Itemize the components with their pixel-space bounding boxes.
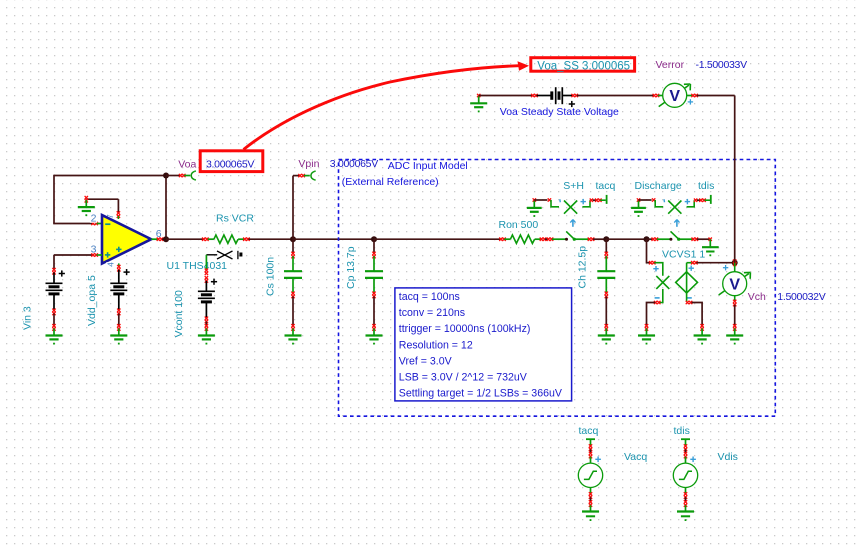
wire Ch node to VCVS node bbox=[606, 238, 646, 240]
svg-text:tconv = 210ns: tconv = 210ns bbox=[399, 307, 465, 319]
plus VCVS output bbox=[689, 266, 694, 271]
label Ch 12.5p (rotated) bbox=[577, 246, 589, 289]
label tdis (top) bbox=[698, 180, 714, 192]
ground op-amp bbox=[78, 196, 95, 216]
svg-text:Voa: Voa bbox=[178, 158, 196, 170]
svg-text:V: V bbox=[729, 277, 740, 294]
terminal Voa output clamp bbox=[191, 171, 196, 180]
svg-text:V: V bbox=[669, 88, 680, 105]
wire Vpin vertical bbox=[293, 174, 310, 239]
terminal tdis (bottom) bbox=[681, 439, 690, 451]
terminal Vpin clamp bbox=[311, 171, 316, 180]
ground Vdis bbox=[677, 505, 694, 521]
VCVS control X symbol bbox=[656, 276, 669, 289]
svg-text:tdis: tdis bbox=[698, 180, 714, 192]
wire Vch voltmeter to ground bbox=[733, 296, 736, 326]
ADC model dashed boundary box bbox=[339, 160, 776, 417]
svg-text:tacq: tacq bbox=[596, 180, 616, 192]
node Voa junction bbox=[163, 173, 169, 179]
svg-text:1.500032V: 1.500032V bbox=[777, 291, 825, 303]
voltmeter Verror bbox=[659, 83, 693, 107]
svg-text:Discharge: Discharge bbox=[635, 180, 682, 192]
svg-text:3.000065V: 3.000065V bbox=[206, 158, 254, 170]
label Cs 100n (rotated) bbox=[264, 257, 276, 296]
wire ground to battery bbox=[479, 94, 552, 97]
label U1 THS4031 bbox=[167, 260, 228, 272]
wire VCVS top to node bbox=[687, 261, 735, 272]
svg-text:Settling target = 1/2 LSBs = 3: Settling target = 1/2 LSBs = 366uV bbox=[399, 388, 563, 400]
wire Vin battery to ground bbox=[53, 314, 55, 327]
wire to pin 2 bbox=[53, 222, 102, 225]
svg-text:Vpin: Vpin bbox=[298, 158, 319, 170]
plus S+H control bbox=[581, 199, 586, 204]
svg-text:Verror: Verror bbox=[656, 59, 685, 71]
wire source Vdis to ground bbox=[684, 488, 687, 507]
svg-text:Resolution = 12: Resolution = 12 bbox=[399, 339, 473, 351]
arrow Discharge control bbox=[674, 220, 679, 227]
node Cs junction bbox=[290, 236, 296, 242]
wire Voa tap bbox=[166, 174, 190, 177]
label Cp 13.7p (rotated) bbox=[345, 246, 357, 289]
pin number 4 (rotated) bbox=[106, 262, 115, 267]
svg-text:Voa_SS 3.000065: Voa_SS 3.000065 bbox=[537, 60, 630, 72]
wire tdis terminal to source bbox=[684, 449, 687, 463]
wire Voa node vertical to op-amp output bbox=[165, 176, 167, 240]
voltmeter Vch bbox=[719, 265, 751, 296]
svg-text:Vch: Vch bbox=[748, 291, 766, 303]
ground Ch bbox=[598, 324, 615, 344]
switch S+H contact bbox=[565, 231, 594, 241]
pin marks Rs right bbox=[243, 238, 250, 241]
battery Vdd_opa bbox=[110, 269, 129, 310]
svg-text:Vcont 100: Vcont 100 bbox=[173, 290, 185, 337]
pin marks op-amp top pin bbox=[117, 211, 120, 219]
svg-text:2: 2 bbox=[91, 213, 97, 225]
svg-text:Ch 12.5p: Ch 12.5p bbox=[577, 246, 589, 289]
wire bus to VCVS control X bbox=[647, 239, 663, 276]
svg-text:LSB = 3.0V / 2^12 = 732uV: LSB = 3.0V / 2^12 = 732uV bbox=[399, 372, 528, 384]
terminal tdis (top) bbox=[710, 195, 712, 204]
plus source Vacq bbox=[595, 457, 601, 463]
switch Discharge contact bbox=[669, 231, 698, 241]
svg-text:S+H: S+H bbox=[563, 180, 584, 192]
svg-text:Rs VCR: Rs VCR bbox=[216, 213, 254, 225]
wire Vin to battery bbox=[52, 255, 55, 275]
terminal tacq (bottom) bbox=[586, 439, 595, 451]
resistor Rs VCR bbox=[208, 235, 245, 243]
label Rs VCR bbox=[216, 213, 254, 225]
minus VCVS output bbox=[687, 297, 692, 299]
wire tacq terminal to source bbox=[589, 449, 592, 463]
label tacq (bottom) bbox=[579, 425, 599, 437]
label Vdd_opa 5 (rotated) bbox=[86, 275, 98, 326]
wire output bus to Rs bbox=[166, 238, 209, 241]
node Cp junction bbox=[371, 236, 377, 242]
pin marks battery Vin bottom bbox=[52, 309, 55, 316]
label Ron 500 bbox=[499, 219, 539, 231]
wire voltmeter to corner bbox=[687, 94, 735, 263]
ground VCVS bbox=[694, 324, 711, 344]
node VCVS control junction bbox=[644, 236, 650, 242]
ground VCVS control bbox=[638, 324, 655, 344]
label ADC Input Model bbox=[388, 160, 468, 172]
pin number 2 bbox=[91, 213, 97, 225]
red annotation arrow to Voa_SS bbox=[244, 61, 530, 149]
terminal tacq (top) bbox=[606, 195, 608, 204]
plus Discharge control bbox=[685, 199, 690, 204]
wire Discharge control left bbox=[639, 198, 664, 207]
VCVS1 dependent source diamond bbox=[676, 272, 698, 293]
wire to pin 3 bbox=[54, 253, 102, 256]
label VCVS1 1 bbox=[662, 248, 705, 260]
wire Cp node to Ron bbox=[374, 238, 506, 241]
node op-amp output junction bbox=[163, 236, 169, 242]
wire Cs node to Cp node bbox=[293, 238, 374, 240]
ground Vcont bbox=[198, 324, 215, 344]
node Ch junction bbox=[603, 236, 609, 242]
svg-text:VCVS1 1: VCVS1 1 bbox=[662, 248, 705, 260]
battery Vin bbox=[46, 270, 65, 310]
svg-text:U1 THS4031: U1 THS4031 bbox=[167, 260, 228, 272]
source Vdis piecewise generator bbox=[673, 463, 697, 487]
op-amp bottom pin bbox=[117, 264, 120, 272]
wire VCVS node to Discharge switch bbox=[647, 238, 671, 241]
wire Rs to Cs node bbox=[248, 238, 293, 240]
svg-text:Vdd_opa 5: Vdd_opa 5 bbox=[86, 275, 98, 326]
ground S+H control bbox=[527, 198, 542, 217]
label (External Reference) bbox=[342, 176, 439, 188]
wire VCVS bottom to ground bbox=[686, 293, 702, 326]
ground Cp bbox=[366, 324, 383, 344]
svg-text:tacq: tacq bbox=[579, 425, 599, 437]
battery Vcont bbox=[198, 279, 217, 319]
value Vpin 3.000065V bbox=[330, 158, 378, 170]
red highlight box around Voa value bbox=[200, 151, 263, 172]
svg-text:Cs 100n: Cs 100n bbox=[264, 257, 276, 296]
ground Discharge dump bbox=[702, 239, 719, 256]
svg-text:ADC Input Model: ADC Input Model bbox=[388, 160, 468, 172]
svg-text:tdis: tdis bbox=[674, 425, 690, 437]
svg-text:Vacq: Vacq bbox=[624, 451, 647, 463]
pin number 3 bbox=[91, 244, 97, 256]
svg-text:Vref = 3.0V: Vref = 3.0V bbox=[399, 355, 453, 367]
switch control X S+H bbox=[564, 201, 577, 214]
source Vacq piecewise generator bbox=[578, 463, 602, 487]
label Voa bbox=[178, 158, 196, 170]
wire op-amp V- pin loop bbox=[86, 199, 118, 212]
value Verror -1.500033V bbox=[696, 59, 748, 71]
ground Vdd bbox=[110, 324, 127, 344]
plus source Vdis bbox=[690, 457, 696, 463]
wire feedback left vertical bbox=[53, 175, 55, 224]
minus VCVS control bbox=[655, 297, 660, 299]
pin marks Vcont bottom bbox=[205, 317, 208, 324]
label S+H bbox=[563, 180, 584, 192]
pin number 6 bbox=[156, 228, 162, 240]
op-amp output stub bbox=[151, 238, 166, 241]
svg-text:(External Reference): (External Reference) bbox=[342, 176, 439, 188]
value Vch 1.500032V bbox=[777, 291, 825, 303]
wire battery to voltmeter bbox=[577, 94, 663, 97]
wire source Vacq to ground bbox=[589, 488, 592, 507]
ground Vacq bbox=[582, 505, 599, 521]
label Voa Steady State Voltage bbox=[500, 106, 619, 118]
svg-text:Vin 3: Vin 3 bbox=[22, 306, 34, 330]
pin marks battery Vdd bottom bbox=[117, 309, 120, 316]
label tdis (bottom) bbox=[674, 425, 690, 437]
wire VCVS control X to ground bbox=[647, 289, 663, 326]
VCR control plug bbox=[238, 251, 243, 259]
node VCVS output junction bbox=[732, 259, 738, 266]
wire switch to Ch node bbox=[593, 238, 606, 240]
ground Voa_SS bbox=[470, 94, 487, 113]
label Vch bbox=[748, 291, 766, 303]
tick Discharge control pin bbox=[663, 199, 666, 202]
value Voa 3.000065V bbox=[206, 158, 254, 170]
label Vacq bbox=[624, 451, 647, 463]
tick S+H control pin bbox=[559, 199, 562, 202]
svg-text:Cp 13.7p: Cp 13.7p bbox=[345, 246, 357, 289]
svg-text:Voa Steady State Voltage: Voa Steady State Voltage bbox=[500, 106, 619, 118]
label Verror bbox=[656, 59, 685, 71]
wire Vcont to ground bbox=[205, 322, 207, 327]
label tacq (top) bbox=[596, 180, 616, 192]
wire Discharge switch to ground bbox=[697, 238, 712, 241]
pin number 7 (rotated) bbox=[106, 214, 115, 219]
label Vpin bbox=[298, 158, 319, 170]
label Vcont 100 (rotated) bbox=[173, 290, 185, 337]
svg-text:4: 4 bbox=[106, 262, 115, 267]
label Discharge bbox=[635, 180, 682, 192]
capacitor Cs 100n bbox=[284, 239, 302, 326]
resistor Ron 500 bbox=[504, 235, 541, 243]
svg-text:Ron 500: Ron 500 bbox=[499, 219, 539, 231]
pin marks Ron right bbox=[540, 238, 547, 241]
wire Discharge control right bbox=[687, 199, 710, 207]
battery Voa Steady State Voltage bbox=[552, 87, 578, 107]
ground Vin bbox=[46, 324, 63, 344]
red highlight box Voa_SS bbox=[531, 58, 635, 71]
wire S+H control right bbox=[582, 199, 605, 207]
plus VCVS control bbox=[653, 266, 658, 271]
op-amp U1 THS4031 triangle bbox=[102, 215, 151, 263]
wire VCR control bbox=[205, 255, 218, 283]
label Voa_SS 3.000065 bbox=[537, 60, 630, 72]
wire Vdd battery to ground bbox=[118, 314, 120, 327]
wire node to Vch voltmeter bbox=[734, 263, 736, 272]
ground Cs bbox=[285, 324, 302, 344]
svg-text:tacq = 100ns: tacq = 100ns bbox=[399, 291, 460, 303]
arrow S+H control bbox=[570, 220, 575, 227]
VCR control X symbol bbox=[217, 251, 233, 259]
parameter note box bbox=[395, 288, 572, 401]
ground Discharge control bbox=[631, 198, 646, 217]
wire Ron to S+H switch bbox=[545, 238, 567, 241]
svg-text:Vdis: Vdis bbox=[718, 451, 738, 463]
capacitor Cp 13.7p bbox=[365, 239, 383, 326]
switch control X Discharge bbox=[668, 201, 681, 214]
label Vin 3 (rotated) bbox=[22, 306, 34, 330]
svg-text:ttrigger = 10000ns (100kHz): ttrigger = 10000ns (100kHz) bbox=[399, 323, 531, 335]
wire feedback top (Voa node to left) bbox=[54, 175, 166, 177]
capacitor Ch 12.5p bbox=[597, 239, 615, 326]
ground Vch bbox=[726, 324, 743, 344]
wire S+H control left bbox=[534, 198, 559, 207]
svg-text:-1.500033V: -1.500033V bbox=[696, 59, 748, 71]
label Vdis bbox=[718, 451, 738, 463]
